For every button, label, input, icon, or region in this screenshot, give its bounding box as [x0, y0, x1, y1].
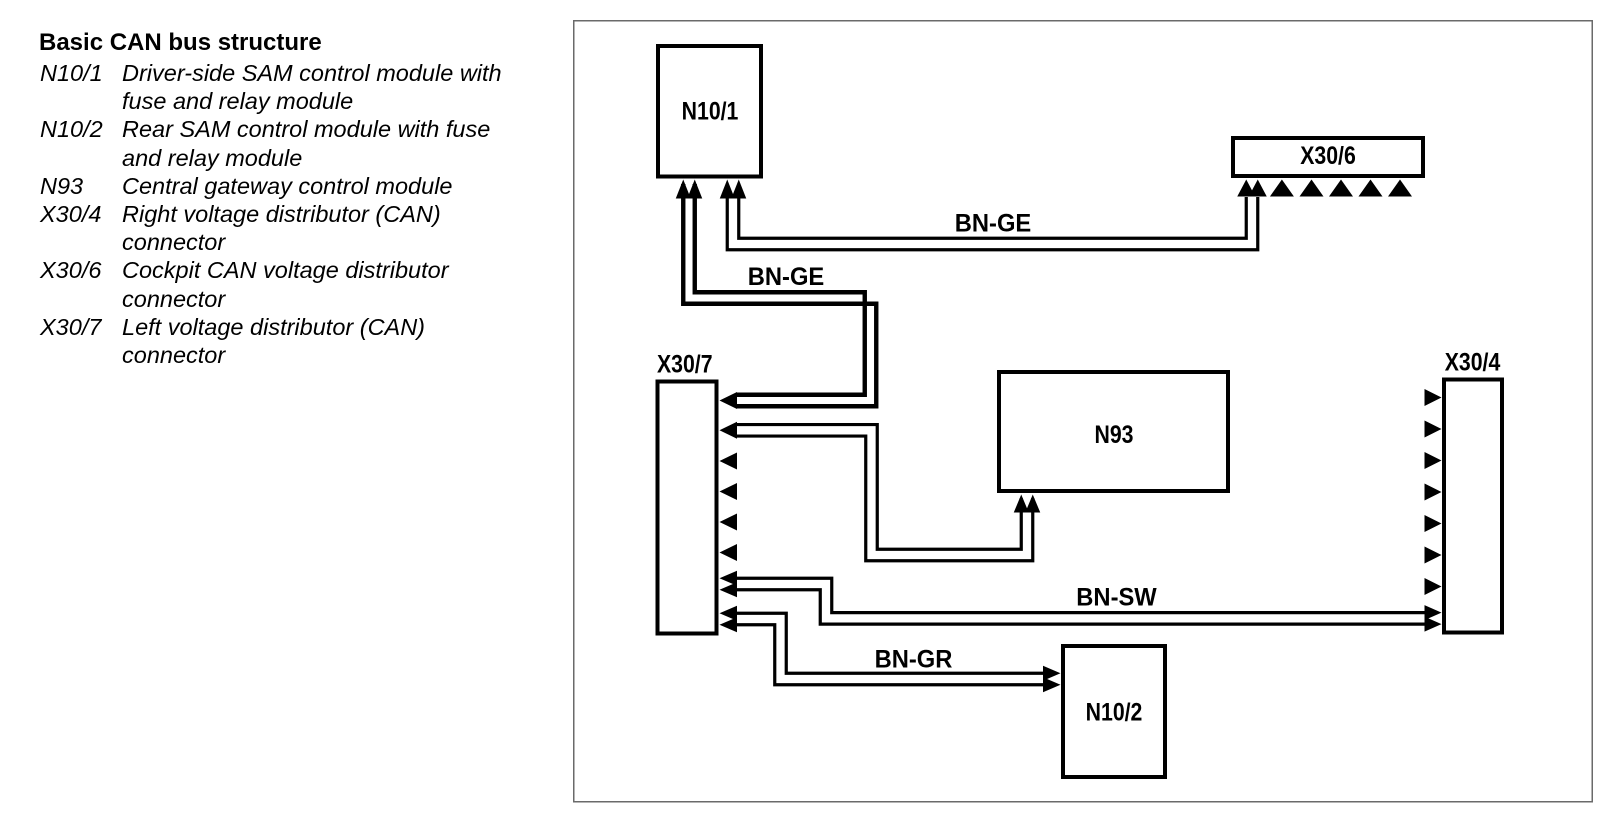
svg-text:BN-SW: BN-SW — [1076, 584, 1156, 612]
X30/6 pin 3 — [1300, 180, 1324, 197]
X30/4 pin 8 double arrowhead (BN-SW) — [1425, 605, 1442, 632]
connector X30/6 — [1233, 138, 1423, 176]
wire X30/7 pin2 to N93 — [737, 425, 1033, 561]
legend list — [40, 59, 502, 369]
svg-text:X30/7: X30/7 — [657, 350, 713, 378]
svg-text:N10/1: N10/1 — [682, 97, 739, 125]
svg-text:N10/2: N10/2 — [1086, 698, 1143, 726]
arrowheads into N93 bottom — [1014, 495, 1041, 513]
X30/4 pin 3 — [1425, 452, 1442, 469]
X30/7 pin 6 — [720, 544, 738, 561]
X30/6 pin 6 — [1388, 180, 1412, 197]
wire BN-SW bus X30/7 pin7 to X30/4 — [737, 578, 1426, 624]
module N10/1 — [658, 46, 761, 177]
X30/7 pin 4 — [720, 483, 738, 500]
X30/4 pin 7 — [1425, 578, 1442, 595]
wire BN-GR bus X30/7 pin8 to N10/2 — [737, 613, 1044, 685]
arrowheads into N10/2 left edge — [1043, 666, 1061, 693]
svg-text:N93: N93 — [1095, 420, 1134, 448]
wire BN-GE bus N10/1 to X30/6 — [727, 184, 1258, 250]
module N93 — [999, 372, 1228, 491]
X30/4 pin 2 — [1425, 421, 1442, 438]
X30/7 pin 2 arrowhead (N93 wire) — [720, 422, 738, 439]
svg-text:X30/6: X30/6 — [1300, 141, 1356, 169]
X30/7 pin 1 arrowhead (BN-GE) — [720, 392, 738, 409]
svg-text:BN-GE: BN-GE — [955, 210, 1032, 238]
X30/6 pin 1 (wired, double arrowhead) — [1237, 180, 1267, 197]
X30/6 pin 5 — [1359, 180, 1383, 197]
X30/7 pin 3 — [720, 453, 738, 470]
diagram frame — [574, 21, 1593, 802]
arrowheads into N10/1 from BN-GE (X30/6 side) — [720, 180, 747, 199]
X30/7 pin 5 — [720, 514, 738, 531]
svg-text:X30/4: X30/4 — [1445, 348, 1501, 376]
X30/4 pin 5 — [1425, 515, 1442, 532]
X30/7 pin 8 double arrowhead (BN-GR) — [720, 606, 738, 633]
label BN-GR — [875, 646, 953, 674]
X30/7 pin 7 double arrowhead (BN-SW) — [720, 571, 738, 598]
X30/4 pin 4 — [1425, 484, 1442, 501]
svg-text:BN-GE: BN-GE — [748, 263, 825, 291]
svg-text:BN-GR: BN-GR — [875, 646, 953, 674]
label BN-SW — [1076, 584, 1156, 612]
label BN-GE (top bus) — [955, 210, 1032, 238]
X30/4 pin 6 — [1425, 547, 1442, 564]
arrowheads into N10/1 from BN-GE (X30/7 side) — [676, 180, 703, 199]
label BN-GE (left bus) — [748, 263, 825, 291]
module N10/2 — [1063, 646, 1165, 777]
X30/4 pin 1 — [1425, 389, 1442, 406]
connector X30/4 — [1444, 348, 1502, 633]
X30/6 pin 2 — [1270, 180, 1294, 197]
wire BN-GE bus N10/1 to X30/7 pin1 — [683, 184, 876, 406]
X30/6 pin 4 — [1329, 180, 1353, 197]
legend title — [39, 29, 322, 57]
connector X30/7 — [657, 350, 717, 634]
